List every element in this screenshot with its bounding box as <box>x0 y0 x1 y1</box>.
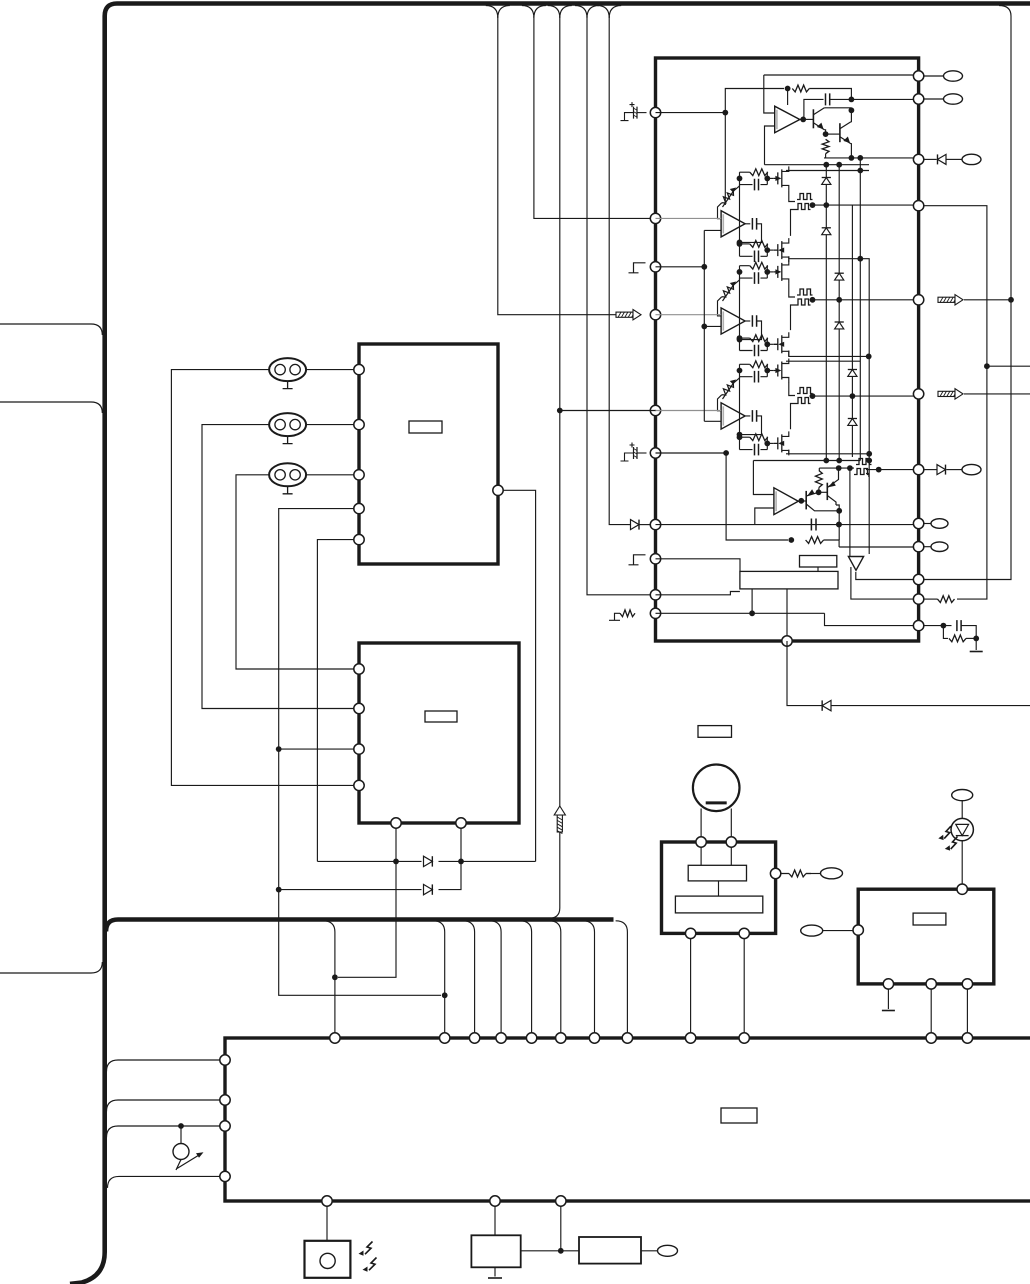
pin IC-right 10 <box>913 574 923 584</box>
resistor R-A2d <box>750 241 768 248</box>
connector J1 <box>269 358 306 381</box>
wire R4 top lead <box>818 468 820 470</box>
pin IC-left 6 <box>650 448 660 458</box>
node A3-u2 <box>764 269 770 275</box>
pin MAIN-top 3 <box>469 1033 479 1043</box>
pin MAIN-left 4 <box>220 1171 230 1181</box>
node P3b <box>701 324 707 330</box>
wire R8 leads <box>780 873 811 875</box>
connector J3 <box>269 463 306 486</box>
wire pin10 row <box>656 612 825 614</box>
node pin10 j <box>749 610 755 616</box>
connector lug out4 <box>962 464 981 474</box>
pin PC1-right <box>493 485 503 495</box>
wire bus tap h <box>616 921 628 1034</box>
wire amp5 +in <box>753 461 774 495</box>
pin DR1-right <box>770 868 780 878</box>
wire top tap B <box>522 6 546 19</box>
diode D-in pin7 <box>631 520 640 530</box>
wire snub lead <box>923 625 952 627</box>
wire snub gnd stem <box>975 638 977 650</box>
wire rail upper2 <box>786 170 869 172</box>
wire rail xV4 <box>859 158 861 461</box>
block DR2 <box>858 889 994 984</box>
signal arrow out pin299 <box>938 297 955 302</box>
pin DR2-bot 3 <box>962 979 972 989</box>
wire A4 C-dn lead <box>740 449 768 451</box>
wire row 468 <box>819 467 854 469</box>
wire X1 gnd stem <box>494 1267 496 1276</box>
node B4 <box>816 489 822 495</box>
wire C1 to pin99 <box>830 98 918 100</box>
resistor R-A3d <box>750 335 768 342</box>
wire PC1 p4 <box>279 509 355 884</box>
resistor R-A3u <box>750 262 768 269</box>
block PC1 <box>359 344 498 564</box>
node ext2 <box>1008 297 1014 303</box>
pin MAIN-top 12 <box>962 1033 972 1043</box>
wire vertical from tap E <box>609 16 628 525</box>
ground DR2 <box>882 1010 895 1012</box>
node trim <box>178 1123 184 1129</box>
wire A4 fet-comb <box>789 382 795 395</box>
wire RB1-lug <box>641 1250 658 1252</box>
wire MAIN-left 1 <box>107 1060 221 1072</box>
node A3-out <box>810 297 816 303</box>
pin MAIN-left 2 <box>220 1095 230 1105</box>
pin DR2-left <box>853 925 863 935</box>
node B3 <box>798 498 804 504</box>
node B6 <box>836 508 842 514</box>
node rail lower1 j <box>866 451 872 457</box>
wire A4 comb out <box>810 395 919 397</box>
wire pin3 riser <box>656 230 705 421</box>
signal arrow out pin393 <box>938 391 955 396</box>
wire vertical from tap B <box>534 16 651 218</box>
label box MAIN <box>721 1108 757 1123</box>
diode D9 <box>822 700 831 710</box>
node ext1 <box>984 363 990 369</box>
wire Q1 base <box>804 118 814 120</box>
wire VR-A4 top <box>733 377 739 384</box>
pin PC1-left 3 <box>354 470 364 480</box>
node A3 <box>800 117 806 123</box>
node A2-m2 <box>737 241 743 247</box>
wire R4 bottom lead <box>818 488 820 493</box>
pin IC-right 7 <box>913 464 923 474</box>
resistor R1 feedback <box>792 85 809 92</box>
pin IC-left 4 <box>650 310 660 320</box>
pin PC1-left 5 <box>354 534 364 544</box>
capacitor C-in1 to ground <box>637 112 647 114</box>
pin MAIN-bot 2 <box>490 1196 500 1206</box>
connector lug RB1 <box>658 1245 678 1256</box>
ground X1 <box>488 1277 502 1279</box>
op-amp A1 <box>775 106 800 133</box>
resistor R-in pin10 <box>620 610 635 617</box>
wire A4 fb loop <box>740 416 762 435</box>
node A2-u2 <box>764 176 770 182</box>
wire A3 fb loop <box>740 321 762 340</box>
wire A2 RC-up join <box>766 172 769 184</box>
motor M1 <box>693 765 740 812</box>
pin MAIN-top 8 <box>622 1033 632 1043</box>
pin PC2-left 1 <box>354 664 364 674</box>
wire node A1 up-right <box>725 89 784 113</box>
wire Q3 collector join <box>838 511 840 540</box>
wire rail xV3 <box>851 205 853 457</box>
diode D11 <box>424 884 433 894</box>
wire J3-PC1 <box>306 474 354 476</box>
wire pin393 ext <box>964 393 1030 395</box>
pin IC-right 8 <box>913 518 923 528</box>
node RB <box>558 1248 564 1254</box>
node B8b <box>847 465 853 471</box>
wire motor lead2 <box>730 809 732 838</box>
connector lug out6 <box>931 542 948 552</box>
pin IC-right 3 <box>913 154 923 164</box>
wire pin299 ext <box>964 299 1011 301</box>
wire A4 fb cap lead <box>745 415 750 417</box>
wire left tap lower <box>0 962 102 973</box>
wire pin9 row2 <box>656 592 740 595</box>
wire B1 down <box>726 453 788 540</box>
node A3-d2 <box>764 341 770 347</box>
wire node A1 down <box>724 113 726 205</box>
wire row625 <box>825 613 919 625</box>
node A2-u <box>737 176 743 182</box>
wire R1 to cap rail <box>809 89 851 100</box>
connector lug out5 <box>931 519 948 529</box>
op-amp A-A4 <box>721 403 745 429</box>
wire A4 RC-dn join <box>766 437 769 449</box>
wire A2 C-up lead <box>740 184 768 186</box>
signal arrow into pin4 <box>616 312 633 317</box>
pin IC-right 2 <box>913 94 923 104</box>
pin DR2-top <box>957 884 967 894</box>
wire VR-A3 bottom <box>718 297 722 316</box>
pin MAIN-top 4 <box>496 1033 506 1043</box>
wire A2 fet-comb <box>789 190 795 201</box>
wire VR-A4 bottom <box>718 395 722 411</box>
wire A3 comb lower lead <box>791 305 796 330</box>
capacitor C-A4f <box>752 410 756 422</box>
node A2 dn-rail <box>857 256 863 262</box>
wire PC1 p5 <box>317 540 354 862</box>
node B1 <box>723 450 729 456</box>
wire A4 R-up lead <box>740 363 750 365</box>
ground ref icon pin8 <box>629 555 646 565</box>
pin PC1-left 2 <box>354 419 364 429</box>
wire pin8 row <box>656 559 741 572</box>
node PC2-3 <box>276 746 282 752</box>
node DD1 <box>393 859 399 865</box>
capacitor C1 <box>826 93 830 105</box>
wire drop396 <box>338 955 396 977</box>
block DR1 <box>662 842 776 933</box>
wire PC2 b1 <box>395 828 397 956</box>
op-amp A-A2 <box>721 211 745 237</box>
diode D7 <box>938 154 947 164</box>
pin MAIN-top 2 <box>440 1033 450 1043</box>
wire out3 a <box>923 158 937 160</box>
wire DR2 gnd stem <box>887 988 889 1009</box>
wire A3 C-dn lead <box>740 350 768 352</box>
node tapC junction <box>557 408 563 414</box>
wire DR1 int1 <box>700 847 702 866</box>
wire top tap E <box>597 6 621 19</box>
wire PC2 b2 <box>460 828 462 862</box>
wire A2 fb cap lead <box>745 223 750 225</box>
wire A3 fet-comb <box>789 284 795 297</box>
capacitor C-A2f <box>752 218 756 230</box>
inner block DR1a <box>688 865 746 881</box>
wire out3 b <box>946 158 962 160</box>
wire pin5 row gray <box>656 410 722 412</box>
wire A3 C-up lead <box>740 277 768 279</box>
resistor R-A4d <box>750 434 768 441</box>
wire amp1 +input <box>764 75 775 113</box>
wire amp1 out to cap <box>800 99 824 119</box>
capacitor C-A3u <box>755 272 759 284</box>
transistor M-A2u <box>774 169 782 187</box>
wire vertical from tap D <box>587 16 651 595</box>
wire A2 gate-dn <box>767 249 774 251</box>
capacitor C6 <box>957 620 961 631</box>
op-amp A-A3 <box>721 308 745 334</box>
node A4-u <box>737 368 743 374</box>
pin DR1-bot 1 <box>685 928 695 938</box>
resistor R-A4u <box>750 361 768 368</box>
pin DR1-top 2 <box>726 837 736 847</box>
node A3-m1 <box>737 337 743 343</box>
wire comb D step <box>866 474 869 478</box>
wire left tap mid <box>0 402 102 413</box>
connector lug out1 <box>944 71 963 81</box>
wire rail lower1 <box>786 453 869 455</box>
wire A2 fb loop <box>740 224 762 243</box>
pin IC-left 1 <box>650 107 660 117</box>
wire A2 comb out <box>810 204 919 206</box>
LED emission arrows <box>944 826 951 839</box>
wire R-in left lead <box>609 613 620 620</box>
wire Q2 collector <box>850 110 853 121</box>
wire snub down <box>943 626 948 639</box>
node A3 rail j <box>866 354 872 360</box>
label box PC2 <box>425 711 457 722</box>
signal arrow bus <box>557 815 562 832</box>
pin PC2-left 2 <box>354 703 364 713</box>
wire pin469 ext a <box>923 469 937 471</box>
wire diode feed pin7 <box>629 524 631 526</box>
wire out row to pin159 <box>824 157 918 159</box>
transistor Q4 <box>826 483 828 500</box>
wire amp5 out <box>798 500 806 502</box>
node rail2-xV4 <box>857 168 863 174</box>
transistor Q3 <box>805 491 807 510</box>
resistor R5 <box>806 537 824 544</box>
wire A3 comb out <box>810 299 919 301</box>
wire motor lead1 <box>700 809 702 838</box>
capacitor C-A4u <box>755 371 759 383</box>
resistor R2 <box>822 139 829 153</box>
wire PC2 row3 <box>279 748 355 750</box>
IR arrows <box>365 1242 373 1255</box>
node B7 <box>876 467 882 473</box>
trimmer VR9 <box>173 1144 189 1160</box>
wire A3 fb cap lead <box>745 320 750 322</box>
IC U1 outline <box>656 58 919 641</box>
wire top rail to pin76 <box>764 74 918 76</box>
pin MAIN-top 10 <box>739 1033 749 1043</box>
wire pin4 row <box>656 314 722 316</box>
capacitor C-in2 to ground <box>637 452 647 454</box>
wire ext1 branch <box>987 365 1030 367</box>
node A3 out-rail <box>836 297 842 303</box>
wire A3 upper node <box>739 266 741 278</box>
wire snub join <box>966 637 976 639</box>
wire A4 upper node <box>739 364 741 376</box>
wire A4 comb lower lead <box>791 404 796 430</box>
wire A2 gate-up <box>767 177 774 179</box>
node A7 <box>849 155 855 161</box>
pin IC-right 4 <box>913 201 923 211</box>
node rail3-a <box>823 458 829 464</box>
node A2 out-rail <box>823 202 829 208</box>
wire PC2 row1 <box>236 664 355 670</box>
resistor R8 <box>789 870 806 877</box>
wire J1-PC1 <box>306 369 354 371</box>
wire XT drop <box>494 1206 496 1236</box>
wire DR2 down3 <box>966 988 968 1033</box>
wire bus tap c <box>463 921 475 1034</box>
pin MAIN-left 3 <box>220 1121 230 1131</box>
node B2 <box>788 537 794 543</box>
wire A3 node link <box>739 278 741 350</box>
wire A2 R-dn lead <box>740 243 750 245</box>
wire A3 RC-up join <box>766 266 769 278</box>
wire snub top <box>961 626 976 639</box>
wire Q4 base link <box>819 491 828 493</box>
wire riser to A2 -in <box>704 229 721 231</box>
node rail3-b <box>836 458 842 464</box>
node rail1-xV2 <box>836 162 842 168</box>
node A1 <box>722 110 728 116</box>
variable resistor VR-A3 <box>722 285 734 297</box>
inverter U2 <box>848 557 863 571</box>
bus line <box>106 920 614 932</box>
wire R6 lead <box>923 598 938 600</box>
node DD5 <box>442 992 448 998</box>
wire DR2 down2 <box>930 988 932 1033</box>
capacitor C-A3d <box>755 345 759 357</box>
wire Q2 emitter down <box>850 144 853 158</box>
wire rail lower2 <box>753 460 860 462</box>
logic block small <box>800 556 837 568</box>
wire diode row1 <box>317 860 535 862</box>
resistor R7 <box>949 635 966 642</box>
wire PC1 right out <box>503 490 536 861</box>
wire VR-A2 top <box>733 185 739 192</box>
wire V1 vertical <box>923 16 1011 580</box>
pin MAIN-top 11 <box>926 1033 936 1043</box>
node A3-m2 <box>737 335 743 341</box>
wire bus tap e <box>520 921 532 1034</box>
pin IC-left 8 <box>650 554 660 564</box>
wire Q1 emitter to R2 <box>824 130 825 133</box>
node A4-u2 <box>764 368 770 374</box>
component RB1 <box>579 1237 641 1264</box>
resonator X1 <box>471 1235 520 1267</box>
wire out6 <box>923 546 931 548</box>
node B5 <box>836 465 842 471</box>
diode D3 <box>835 273 844 280</box>
wire A3 RC-dn join <box>766 338 769 350</box>
pin IC-left 2 <box>650 213 660 223</box>
node A2-m1 <box>737 240 743 246</box>
wire rail xV2 <box>838 165 840 461</box>
wire tap446 <box>433 921 445 1034</box>
wire R8-lug <box>806 873 821 875</box>
node A2-d2 <box>764 247 770 253</box>
wire bus tap d <box>489 921 501 1034</box>
wire rail xV5 <box>868 300 870 454</box>
wire pin2 row <box>656 217 722 219</box>
node A2 <box>785 86 791 92</box>
pin IC-left 5 <box>650 405 660 415</box>
wire lug-DR2 <box>823 930 854 932</box>
pin IC-left 9 <box>650 590 660 600</box>
pin PC2-left 3 <box>354 744 364 754</box>
node B8 <box>836 522 842 528</box>
wire riser to A3 -in <box>704 325 721 327</box>
wire A3 fet-dn lead2 <box>786 360 860 362</box>
node A4 <box>849 97 855 103</box>
wire PC2 row4 <box>171 780 354 785</box>
capacitor C-A2d <box>755 251 759 263</box>
wire PC2 row2 <box>202 703 355 709</box>
wire rail xV1 <box>825 165 827 205</box>
pin MAIN-bot 3 <box>556 1196 566 1206</box>
wire VR-A2 bottom <box>718 203 722 219</box>
wire amp1 -input <box>765 126 775 165</box>
wire A4 R-dn lead <box>740 436 750 438</box>
wire top tap C <box>548 6 572 19</box>
node snub1 <box>941 623 947 629</box>
wire DR1 int2 <box>730 847 732 866</box>
wire row579 <box>856 572 918 580</box>
power FET comb A3 <box>797 289 813 295</box>
transistor Q1 <box>812 109 814 128</box>
pin PC2-bot 1 <box>391 818 401 828</box>
wire DR1 link <box>718 881 720 896</box>
pin DR1-bot 2 <box>739 928 749 938</box>
wire J2 left <box>202 425 269 703</box>
pin DR1-top 1 <box>696 837 706 847</box>
pin MAIN-top 7 <box>589 1033 599 1043</box>
wire ext1 cont <box>957 361 987 599</box>
wire J1 left <box>171 370 269 780</box>
logic block large <box>740 571 838 589</box>
wire pin469 ext b <box>946 469 962 471</box>
wire A2 fet-dn lead <box>789 256 869 300</box>
wire lug-LED <box>961 801 963 819</box>
wire LED-block4 <box>961 841 963 885</box>
node A6 <box>823 131 829 137</box>
wire riser to A4 -in <box>704 420 721 422</box>
node A4-m1 <box>737 432 743 438</box>
transistor M-A4u <box>774 362 782 380</box>
